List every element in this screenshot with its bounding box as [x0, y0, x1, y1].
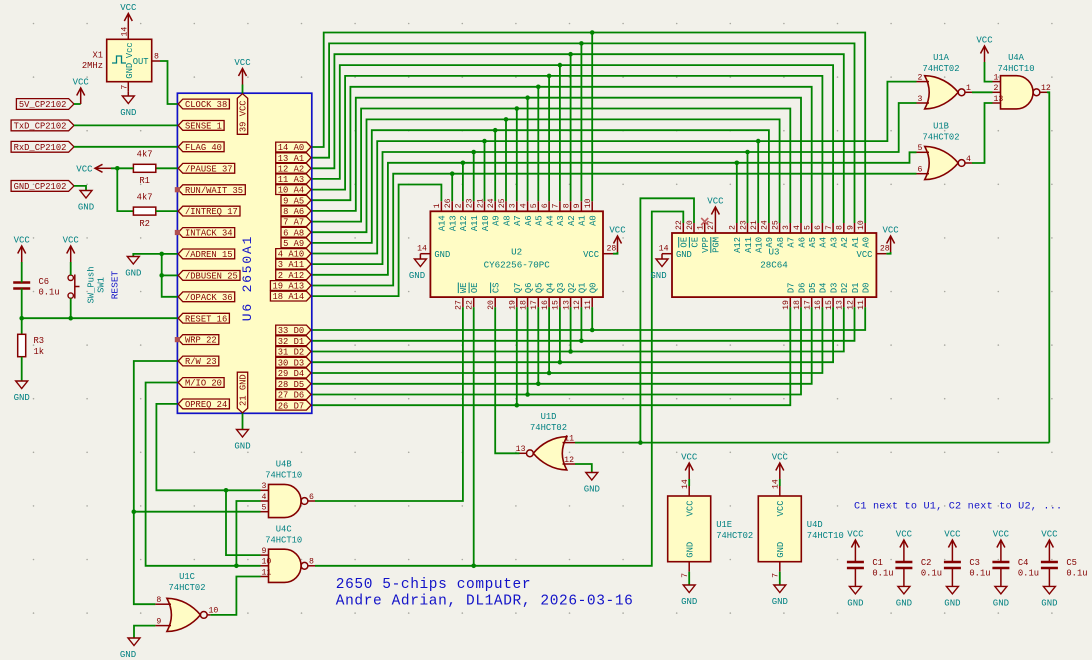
svg-text:VCC: VCC — [234, 58, 251, 68]
GND at U1E — [681, 572, 697, 607]
svg-text:A6: A6 — [797, 237, 807, 248]
svg-text:17: 17 — [530, 300, 539, 310]
sheet pin 2 A12 — [276, 270, 311, 281]
sheet pin /INTREQ 17 — [178, 206, 240, 217]
U2 pin 28 VCC — [583, 245, 616, 260]
svg-text:VCC: VCC — [686, 501, 696, 517]
svg-text:6: 6 — [814, 225, 823, 230]
svg-text:20: 20 — [487, 300, 496, 310]
svg-text:23: 23 — [466, 198, 475, 208]
GND at U2 — [409, 254, 427, 281]
svg-text:C1: C1 — [872, 558, 883, 568]
sheet pin 11 A3 — [276, 174, 311, 185]
U2 pin 20 CS — [487, 283, 502, 310]
svg-text:12 A2: 12 A2 — [278, 164, 304, 174]
svg-text:2: 2 — [918, 73, 923, 82]
sheet pin 3 A11 — [276, 259, 311, 270]
svg-text:R3: R3 — [34, 336, 45, 346]
U3 pin 18 D6 — [793, 283, 808, 310]
svg-text:4: 4 — [966, 155, 971, 164]
NAND gate U4A 74HCT10 — [993, 53, 1051, 109]
svg-text:11: 11 — [564, 434, 574, 443]
svg-text:4: 4 — [262, 493, 267, 502]
sheet pin 21 GND — [237, 372, 248, 413]
svg-text:11: 11 — [262, 568, 272, 577]
U2 pin 11 Q0 — [584, 283, 599, 310]
svg-text:GND_CP2102: GND_CP2102 — [14, 182, 67, 192]
U3 pin 24 A9 — [761, 220, 776, 247]
svg-text:20: 20 — [686, 220, 695, 230]
GND at U1C — [120, 638, 140, 660]
svg-text:RESET: RESET — [110, 270, 121, 299]
U2 pin 5 A5 — [530, 201, 545, 226]
svg-text:C1 next to U1, C2 next to U2,: C1 next to U1, C2 next to U2, ... — [854, 502, 1062, 513]
svg-text:D5: D5 — [808, 283, 818, 294]
title text — [336, 577, 634, 610]
wire U1C.10 to U4C.11 — [210, 577, 260, 615]
svg-text:7 A7: 7 A7 — [283, 218, 304, 228]
svg-text:U4D: U4D — [807, 520, 823, 530]
svg-text:26 D7: 26 D7 — [278, 401, 304, 411]
VCC at C6 — [14, 236, 31, 263]
svg-text:GND: GND — [772, 597, 788, 607]
svg-text:22: 22 — [466, 300, 475, 310]
U3 pin 9 A1 — [846, 223, 861, 248]
svg-text:Q3: Q3 — [556, 283, 566, 294]
U3 pin 8 A2 — [836, 223, 851, 248]
U2 pin 21 A10 — [476, 198, 491, 231]
svg-text:3: 3 — [918, 95, 923, 104]
resistor R3 1k — [18, 334, 44, 357]
VCC at SW1 — [63, 236, 80, 263]
svg-text:21 GND: 21 GND — [239, 374, 249, 406]
VCC at C2 — [896, 530, 913, 563]
VCC at U4A — [976, 36, 993, 63]
svg-text:0.1u: 0.1u — [872, 569, 893, 579]
svg-text:24: 24 — [761, 220, 770, 230]
EEPROM U3 28C64 body — [672, 233, 876, 297]
U2 pin 18 Q6 — [519, 283, 534, 310]
resistor R1 4k7 — [133, 150, 155, 186]
svg-text:OUT: OUT — [133, 57, 149, 67]
svg-text:SW_Push: SW_Push — [87, 267, 97, 304]
sheet pin R/W 23 — [178, 356, 219, 367]
sheet pin 13 A1 — [276, 153, 311, 164]
sheet pin WRP 22 — [178, 335, 219, 346]
svg-text:OE: OE — [470, 283, 480, 294]
svg-text:9: 9 — [262, 547, 267, 556]
svg-text:6: 6 — [541, 203, 550, 208]
wire A4 — [312, 74, 823, 223]
svg-text:10 A4: 10 A4 — [278, 186, 304, 196]
svg-text:VCC: VCC — [993, 530, 1010, 540]
svg-text:VPP: VPP — [701, 237, 711, 253]
svg-text:1: 1 — [697, 225, 706, 230]
svg-text:U1E: U1E — [716, 520, 732, 530]
svg-text:CS: CS — [492, 283, 502, 294]
sheet pin 31 D2 — [276, 347, 311, 358]
U3 pin 25 A8 — [771, 220, 786, 247]
wire U1B.4 to U4A.13 — [972, 103, 993, 163]
wire U4C.8 to /OE net — [315, 212, 683, 569]
svg-text:28: 28 — [880, 245, 890, 254]
svg-text:C2: C2 — [921, 558, 932, 568]
wire A13 — [312, 171, 917, 285]
svg-text:14 A0: 14 A0 — [278, 143, 304, 153]
U2 pin 6 A4 — [541, 201, 556, 226]
U3 pin 16 D4 — [814, 283, 829, 310]
svg-text:CY62256-70PC: CY62256-70PC — [484, 260, 551, 271]
svg-text:A1: A1 — [578, 215, 588, 226]
GND at R3 — [14, 381, 30, 403]
svg-text:A14: A14 — [438, 215, 448, 231]
svg-text:16: 16 — [541, 300, 550, 310]
GND at C5 — [1041, 568, 1057, 608]
svg-text:8: 8 — [309, 558, 314, 567]
svg-text:3: 3 — [782, 225, 791, 230]
svg-text:1: 1 — [433, 203, 442, 208]
svg-text:U4C: U4C — [276, 525, 292, 535]
svg-text:A7: A7 — [787, 237, 797, 248]
GND at CPU bottom — [234, 413, 250, 451]
svg-text:6 A8: 6 A8 — [283, 228, 304, 238]
no-connect at U3 VPP — [701, 218, 708, 225]
capacitor C2 0.1u — [895, 558, 942, 579]
wire A3 — [312, 63, 833, 223]
U3 pin 23 A11 — [739, 220, 754, 253]
svg-text:8: 8 — [836, 225, 845, 230]
svg-text:/PAUSE 37: /PAUSE 37 — [185, 164, 233, 174]
wire U1D.13 to U2 /CS — [495, 307, 519, 453]
U2 pin 12 Q1 — [573, 283, 588, 310]
svg-text:GND: GND — [776, 542, 786, 558]
svg-text:12: 12 — [573, 300, 582, 310]
svg-text:D3: D3 — [829, 283, 839, 294]
GND at C1 — [847, 568, 863, 608]
svg-text:28C64: 28C64 — [760, 260, 788, 271]
svg-text:VCC: VCC — [857, 250, 873, 260]
U2 pin 22 OE — [466, 283, 481, 310]
svg-text:A1: A1 — [851, 237, 861, 248]
svg-text:A9: A9 — [765, 237, 775, 248]
global label RxD_CP2102 — [11, 141, 74, 153]
svg-text:19: 19 — [782, 300, 791, 310]
svg-text:74HCT10: 74HCT10 — [807, 531, 844, 541]
svg-text:10: 10 — [857, 220, 866, 230]
svg-text:11 A3: 11 A3 — [278, 175, 304, 185]
sheet pin M/IO 20 — [178, 378, 224, 389]
svg-text:A6: A6 — [524, 215, 534, 226]
U3 pin 10 A0 — [857, 220, 872, 247]
U3 pin 1 VPP — [697, 223, 712, 253]
svg-text:PGM: PGM — [712, 237, 722, 253]
svg-text:6: 6 — [309, 493, 314, 502]
svg-text:VCC: VCC — [76, 165, 93, 175]
svg-text:74HCT10: 74HCT10 — [265, 471, 302, 481]
resistor R2 4k7 — [133, 193, 155, 229]
svg-text:74HCT02: 74HCT02 — [169, 583, 206, 593]
svg-text:8: 8 — [156, 596, 161, 605]
svg-text:19 A13: 19 A13 — [273, 282, 305, 292]
svg-text:A7: A7 — [513, 215, 523, 226]
svg-text:FLAG 40: FLAG 40 — [185, 143, 222, 153]
svg-text:4: 4 — [519, 203, 528, 208]
U3 pin 12 D1 — [846, 283, 861, 310]
svg-text:21: 21 — [750, 220, 759, 230]
U2 pin 1 A14 — [433, 201, 448, 231]
sheet pin 26 D7 — [276, 400, 311, 411]
svg-text:8: 8 — [154, 53, 159, 62]
svg-text:X1: X1 — [92, 51, 103, 61]
wire U1C.9 to GND — [134, 626, 155, 638]
wire A10 — [312, 82, 917, 254]
svg-text:C4: C4 — [1018, 558, 1029, 568]
svg-text:39 VCC: 39 VCC — [239, 100, 249, 132]
svg-text:12: 12 — [564, 456, 574, 465]
svg-text:74HCT02: 74HCT02 — [530, 423, 567, 433]
svg-text:A0: A0 — [862, 237, 872, 248]
svg-text:VCC: VCC — [63, 236, 80, 246]
svg-text:25: 25 — [771, 220, 780, 230]
sheet pin 33 D0 — [276, 325, 311, 336]
svg-text:GND: GND — [120, 108, 136, 118]
VCC at U1E — [681, 453, 698, 487]
U3 pin 28 VCC — [857, 245, 890, 260]
svg-text:A12: A12 — [733, 237, 743, 253]
svg-text:RUN/WAIT 35: RUN/WAIT 35 — [185, 186, 243, 196]
note text — [854, 502, 1062, 513]
svg-text:3 A11: 3 A11 — [278, 260, 304, 270]
GND at C4 — [993, 568, 1009, 608]
svg-text:5V_CP2102: 5V_CP2102 — [19, 100, 67, 110]
U2 pin 19 Q7 — [509, 283, 524, 310]
svg-text:13: 13 — [562, 300, 571, 310]
svg-text:5 A9: 5 A9 — [283, 239, 304, 249]
svg-text:9 A5: 9 A5 — [283, 196, 304, 206]
svg-text:2: 2 — [994, 84, 999, 93]
sheet pin 18 A14 — [270, 291, 311, 302]
svg-text:10: 10 — [262, 558, 272, 567]
svg-text:9: 9 — [846, 225, 855, 230]
svg-text:M/IO 20: M/IO 20 — [185, 379, 222, 389]
U2 pin 9 A1 — [573, 201, 588, 226]
SRAM U2 CY62256-70PC body — [430, 211, 603, 297]
svg-text:2 A12: 2 A12 — [278, 271, 304, 281]
wire X1 OUT to CLOCK — [160, 61, 177, 104]
svg-text:29 D4: 29 D4 — [278, 369, 304, 379]
svg-text:9: 9 — [156, 617, 161, 626]
sheet pin SENSE 1 — [178, 121, 224, 132]
svg-text:D7: D7 — [787, 283, 797, 294]
svg-text:32 D1: 32 D1 — [278, 337, 304, 347]
sheet pin 5 A9 — [281, 238, 311, 249]
svg-text:A10: A10 — [481, 215, 491, 231]
U3 pin 13 D2 — [836, 283, 851, 310]
svg-text:R2: R2 — [139, 219, 150, 229]
svg-text:A4: A4 — [819, 237, 829, 248]
wire RESET to R3 — [21, 318, 23, 334]
U2 pin 17 Q5 — [530, 283, 545, 310]
U2 pin 8 A2 — [562, 201, 577, 226]
svg-text:VCC: VCC — [73, 78, 90, 88]
sheet pin /DBUSEN 25 — [178, 271, 240, 282]
U2 pin 14 GND — [417, 245, 450, 260]
svg-text:12: 12 — [846, 300, 855, 310]
svg-text:A5: A5 — [535, 215, 545, 226]
svg-text:31 D2: 31 D2 — [278, 348, 304, 358]
wire R1 to VCC — [111, 166, 133, 171]
wire A12 — [312, 152, 917, 274]
sheet pin 39 VCC — [237, 94, 248, 135]
wire U3 VCC — [886, 252, 890, 254]
svg-text:Q7: Q7 — [513, 283, 523, 294]
svg-text:18: 18 — [519, 300, 528, 310]
wire A11 — [312, 103, 917, 264]
svg-text:3: 3 — [509, 203, 518, 208]
svg-text:2MHz: 2MHz — [82, 61, 103, 71]
unconnected pin square — [175, 337, 180, 342]
U2 pin 2 A12 — [455, 201, 470, 231]
wire D3 — [312, 307, 833, 364]
svg-text:U4B: U4B — [276, 460, 292, 470]
svg-text:15: 15 — [825, 300, 834, 310]
svg-text:C5: C5 — [1066, 558, 1077, 568]
GND at C3 — [944, 568, 960, 608]
global label GND_CP2102 — [11, 181, 74, 193]
sheet pin /PAUSE 37 — [178, 163, 235, 174]
svg-text:U4A: U4A — [1008, 53, 1025, 63]
svg-text:/DBUSEN 25: /DBUSEN 25 — [185, 272, 238, 282]
capacitor C3 0.1u — [944, 558, 991, 579]
svg-text:RESET 16: RESET 16 — [185, 314, 227, 324]
NOR gate U1D 74HCT02 — [516, 412, 575, 470]
svg-text:A13: A13 — [449, 215, 459, 231]
svg-text:Q1: Q1 — [578, 283, 588, 294]
svg-text:/INTREQ 17: /INTREQ 17 — [185, 207, 238, 217]
wire C6 — [21, 262, 23, 318]
sheet pin 4 A10 — [276, 249, 311, 260]
svg-text:17: 17 — [804, 300, 813, 310]
svg-text:5: 5 — [530, 203, 539, 208]
svg-text:C3: C3 — [969, 558, 980, 568]
svg-text:5: 5 — [804, 225, 813, 230]
svg-text:GND: GND — [14, 393, 30, 403]
svg-text:0.1u: 0.1u — [921, 569, 942, 579]
svg-text:5: 5 — [262, 504, 267, 513]
svg-text:U1D: U1D — [541, 412, 557, 422]
svg-text:Vcc: Vcc — [125, 42, 135, 58]
sheet pin FLAG 40 — [178, 142, 224, 153]
oscillator X1 2MHz — [82, 27, 160, 92]
U3 pin 11 D0 — [857, 283, 872, 310]
sheet pin /ADREN 15 — [178, 249, 235, 260]
global label 5V_CP2102 — [16, 99, 74, 111]
svg-text:VCC: VCC — [882, 226, 899, 236]
svg-text:GND: GND — [896, 598, 912, 608]
svg-text:27 D6: 27 D6 — [278, 391, 304, 401]
svg-text:0.1u: 0.1u — [969, 569, 990, 579]
svg-text:1: 1 — [994, 73, 999, 82]
power unit U1E 74HCT02 — [668, 479, 753, 578]
svg-text:R1: R1 — [139, 176, 150, 186]
svg-text:VCC: VCC — [944, 530, 961, 540]
svg-text:0.1u: 0.1u — [1018, 569, 1039, 579]
VCC left of R1 — [76, 164, 111, 174]
U2 pin 3 A7 — [509, 201, 524, 226]
svg-text:Q6: Q6 — [524, 283, 534, 294]
sheet pin 14 A0 — [276, 142, 311, 153]
wire 5V to VCC — [74, 103, 81, 105]
U3 pin 4 A6 — [793, 223, 808, 248]
svg-text:A11: A11 — [744, 237, 754, 253]
svg-text:1: 1 — [966, 84, 971, 93]
svg-text:/OPACK 36: /OPACK 36 — [185, 293, 233, 303]
svg-text:C6: C6 — [39, 277, 50, 287]
svg-text:4: 4 — [793, 225, 802, 230]
svg-text:21: 21 — [476, 198, 485, 208]
svg-text:2: 2 — [455, 203, 464, 208]
svg-text:13: 13 — [994, 95, 1004, 104]
wire OPREQ net — [156, 404, 260, 555]
sheet pin 12 A2 — [276, 163, 311, 174]
wire RESET — [19, 316, 177, 321]
svg-text:7: 7 — [120, 85, 129, 90]
svg-text:10: 10 — [584, 198, 593, 208]
svg-text:WE: WE — [459, 283, 469, 294]
svg-text:25: 25 — [498, 198, 507, 208]
global label TxD_CP2102 — [11, 120, 74, 132]
U2 pin 7 A3 — [552, 201, 567, 226]
sheet pin 7 A7 — [281, 217, 311, 228]
svg-text:R/W 23: R/W 23 — [185, 357, 217, 367]
svg-text:GND: GND — [234, 442, 250, 452]
sheet pin 8 A6 — [281, 206, 311, 217]
svg-text:74HCT10: 74HCT10 — [998, 64, 1035, 74]
VCC at 5V_CP2102 — [73, 78, 90, 105]
sheet pin RESET 16 — [178, 313, 229, 324]
svg-text:VCC: VCC — [120, 3, 137, 13]
svg-text:6: 6 — [918, 166, 923, 175]
svg-text:74HCT10: 74HCT10 — [265, 536, 302, 546]
wire D1 — [312, 307, 855, 343]
svg-text:RxD_CP2102: RxD_CP2102 — [14, 143, 67, 153]
svg-text:A8: A8 — [776, 237, 786, 248]
svg-text:VCC: VCC — [1041, 530, 1058, 540]
svg-text:GND: GND — [125, 269, 141, 279]
U3 pin 14 GND — [659, 245, 692, 260]
svg-text:GND: GND — [847, 598, 863, 608]
U3 pin 6 A4 — [814, 223, 829, 248]
svg-text:U2: U2 — [511, 247, 522, 258]
sheet pin 29 D4 — [276, 368, 311, 379]
U3 pin 15 D3 — [825, 283, 840, 310]
GND at U3 — [650, 254, 668, 281]
svg-text:TxD_CP2102: TxD_CP2102 — [14, 122, 67, 132]
wire RxD to FLAG — [74, 146, 177, 148]
svg-text:7: 7 — [552, 203, 561, 208]
svg-text:VCC: VCC — [707, 197, 724, 207]
VCC at X1 — [120, 3, 137, 30]
wire D7 — [312, 307, 791, 407]
svg-text:19: 19 — [509, 300, 518, 310]
svg-text:VCC: VCC — [609, 226, 626, 236]
VCC at C4 — [993, 530, 1010, 563]
svg-text:CLOCK 38: CLOCK 38 — [185, 100, 227, 110]
svg-text:A3: A3 — [556, 215, 566, 226]
svg-text:8: 8 — [562, 203, 571, 208]
svg-text:A11: A11 — [470, 215, 480, 231]
svg-text:VCC: VCC — [14, 236, 31, 246]
